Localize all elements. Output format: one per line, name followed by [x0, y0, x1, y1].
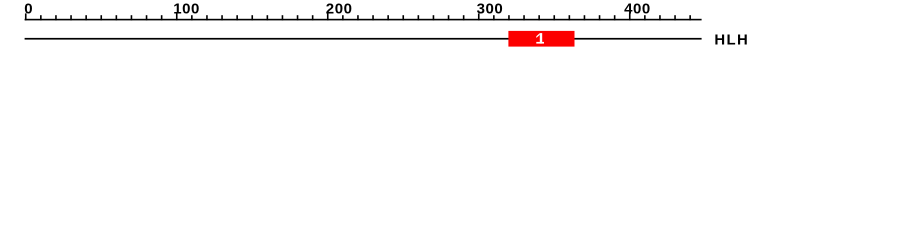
svg-text:300: 300: [477, 0, 504, 17]
svg-text:HLH: HLH: [714, 32, 749, 48]
motif box 1 (red): [508, 31, 574, 47]
major tick 0 with label: [24, 0, 32, 20]
svg-text:400: 400: [624, 0, 651, 17]
major tick 200 with label: [326, 0, 353, 20]
ruler minor ticks: [40, 15, 691, 20]
svg-text:100: 100: [173, 0, 200, 17]
ruler axis line: [25, 19, 702, 21]
major tick 300 with label: [477, 0, 504, 20]
major tick 400 with label: [624, 0, 651, 20]
motif number label 1: [536, 33, 544, 44]
sequence backbone line: [25, 38, 702, 40]
svg-text:0: 0: [24, 0, 32, 17]
major tick 100 with label: [173, 0, 200, 20]
svg-text:200: 200: [326, 0, 353, 17]
